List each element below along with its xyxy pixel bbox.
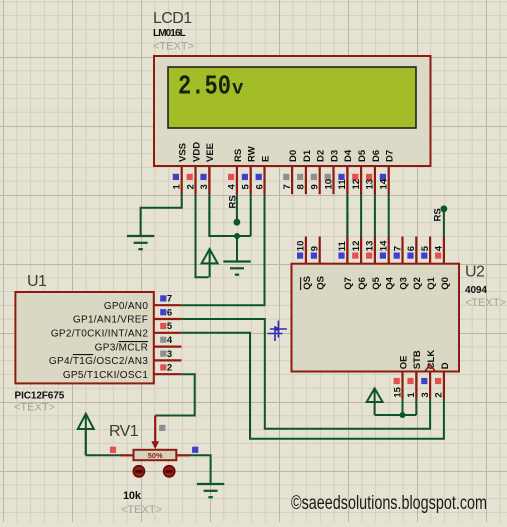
svg-text:RW: RW — [247, 146, 258, 162]
wire LCD RW (pin5) down — [250, 194, 252, 236]
svg-text:GP2/T0CKI/INT/AN2: GP2/T0CKI/INT/AN2 — [51, 329, 148, 340]
ground (VEE/RW) — [223, 262, 250, 275]
U2 pin 4 (Q0) — [434, 237, 451, 290]
junction VEE/RW/ground — [234, 233, 240, 239]
svg-text:D3: D3 — [329, 150, 340, 162]
wire U1 GP1 (pin6) to U2 CLK — [181, 319, 430, 429]
svg-text:<TEXT>: <TEXT> — [121, 504, 162, 516]
potentiometer RV1 body — [134, 450, 177, 460]
svg-text:D1: D1 — [302, 149, 313, 162]
LCD1 pin 6 (E) — [254, 156, 271, 195]
svg-text:8: 8 — [296, 184, 307, 189]
U2 pin 5 (Q1) — [420, 237, 437, 290]
svg-text:3: 3 — [199, 184, 210, 189]
svg-text:GP1/AN1/VREF: GP1/AN1/VREF — [73, 315, 148, 326]
svg-text:Q0: Q0 — [440, 277, 451, 290]
U2 pin 7 (Q3) — [392, 237, 409, 290]
RV1 pin 2 (right) — [176, 447, 198, 456]
svg-text:9: 9 — [310, 246, 321, 251]
wire LCD D5 (pin12) to U2 Q6 — [360, 194, 362, 237]
svg-text:RS: RS — [432, 208, 443, 221]
U2 pin 6 (Q2) — [406, 237, 423, 290]
wire LCD VSS (pin1) to ground — [141, 194, 182, 235]
svg-text:D2: D2 — [316, 150, 327, 162]
svg-text:GP3/MCLR: GP3/MCLR — [95, 342, 149, 353]
svg-text:9: 9 — [310, 184, 321, 189]
LCD1 pin 11 (D4) — [337, 149, 354, 194]
svg-text:<TEXT>: <TEXT> — [465, 297, 506, 309]
svg-text:U2: U2 — [465, 264, 485, 281]
svg-text:D4: D4 — [343, 149, 354, 162]
svg-text:6: 6 — [406, 246, 417, 251]
clock notch U2 CLK — [425, 365, 436, 372]
svg-text:10k: 10k — [123, 490, 142, 502]
wire junction to ground — [236, 236, 238, 261]
svg-text:D7: D7 — [385, 150, 396, 162]
svg-text:10: 10 — [323, 179, 334, 190]
svg-text:VEE: VEE — [205, 143, 216, 162]
svg-text:11: 11 — [337, 240, 348, 251]
U1 pin 3 (GP4/T1G/OSC2/AN3) — [49, 349, 181, 367]
LCD1 pin 9 (D2) — [310, 150, 327, 194]
LCD1 pin 3 (VEE) — [199, 143, 216, 194]
svg-text:D: D — [440, 362, 451, 369]
svg-text:RS: RS — [227, 195, 238, 208]
svg-text:5: 5 — [241, 184, 252, 190]
ground (RV1) — [197, 484, 224, 497]
svg-text:OE: OE — [398, 356, 409, 370]
wire LCD D7 (pin14) to U2 Q4 — [388, 194, 390, 237]
wire RV1 right to ground — [190, 455, 211, 483]
svg-text:2: 2 — [167, 363, 172, 374]
wire OE/STB to power — [375, 414, 417, 416]
LCD1 pin 7 (D0) — [282, 150, 299, 194]
svg-text:VSS: VSS — [178, 143, 189, 162]
U2 pin 3 (CLK) — [420, 350, 437, 399]
svg-text:U1: U1 — [27, 273, 47, 290]
U1 pin 5 (GP2/T0CKI/INT/AN2) — [51, 321, 182, 339]
LCD1 pin 10 (D3) — [323, 150, 340, 194]
U2 pin 1 (STB) — [406, 350, 423, 399]
svg-text:12: 12 — [351, 241, 362, 252]
svg-text:1: 1 — [406, 392, 417, 398]
marker origin crosshair — [268, 321, 287, 342]
svg-text:1: 1 — [172, 184, 183, 190]
svg-text:6: 6 — [254, 184, 265, 189]
svg-text:3: 3 — [420, 392, 431, 397]
LCD1 pin 2 (VDD) — [185, 142, 202, 194]
svg-text:Q2: Q2 — [412, 277, 423, 290]
LCD1 pin 13 (D6) — [365, 150, 382, 194]
svg-text:Q4: Q4 — [385, 276, 396, 289]
wire LCD VEE (pin3) to RW net — [209, 194, 250, 236]
power arrow VDD (LCD) — [202, 249, 218, 277]
LCD1 pin 14 (D7) — [379, 150, 396, 194]
U2 pin 10 (QS) — [296, 237, 313, 290]
svg-text:Q3: Q3 — [398, 277, 409, 290]
wire U1 GP2 (pin5) to U2 D — [181, 333, 444, 439]
svg-text:14: 14 — [379, 178, 390, 189]
svg-text:©saeedsolutions.blogspot.com: ©saeedsolutions.blogspot.com — [291, 493, 487, 514]
svg-text:50%: 50% — [148, 451, 163, 460]
LCD LCD1 body — [154, 56, 431, 166]
svg-text:GP5/T1CKI/OSC1: GP5/T1CKI/OSC1 — [63, 370, 148, 381]
svg-text:GP4/T1G/OSC2/AN3: GP4/T1G/OSC2/AN3 — [49, 356, 148, 367]
svg-text:D6: D6 — [371, 150, 382, 162]
U2 pin 2 (D) — [434, 362, 451, 399]
svg-text:<TEXT>: <TEXT> — [14, 402, 55, 414]
wire U2 STB (pin1) down — [415, 399, 417, 415]
node RS (U2 side) — [441, 205, 448, 212]
svg-text:3: 3 — [167, 349, 172, 360]
wire LCD VDD (pin2) to power — [196, 194, 209, 277]
svg-text:QS: QS — [316, 276, 327, 290]
svg-text:E: E — [260, 156, 271, 162]
svg-text:7: 7 — [282, 184, 293, 189]
svg-text:v: v — [232, 78, 244, 100]
LCD1 pin 1 (VSS) — [172, 143, 189, 194]
svg-text:LM016L: LM016L — [153, 28, 186, 39]
wire RV1 left to power — [86, 454, 120, 456]
svg-text:4: 4 — [167, 335, 173, 346]
RV1 pad right — [164, 466, 175, 477]
svg-text:RV1: RV1 — [109, 423, 139, 440]
svg-text:D5: D5 — [357, 149, 368, 162]
U2 pin 13 (Q5) — [365, 237, 382, 290]
svg-text:2: 2 — [185, 184, 196, 189]
U2 pin 11 (Q7) — [337, 237, 354, 290]
svg-text:D0: D0 — [288, 150, 299, 162]
power arrow VDD (RV1) — [78, 414, 94, 456]
wire U2 Q0 (pin4) RS stub — [443, 211, 445, 237]
svg-text:11: 11 — [337, 179, 348, 190]
wire U1 GP5 (pin2) to RV1 wiper — [155, 374, 195, 415]
svg-text:4: 4 — [434, 245, 445, 251]
LCD1 pin 12 (D5) — [351, 149, 368, 194]
overline T1G (U1 pin 3) — [73, 354, 93, 356]
svg-text:15: 15 — [392, 386, 403, 397]
IC U2 body — [292, 264, 460, 372]
overline MCLR (U1 pin 4) — [119, 341, 149, 343]
LCD LCD1 screen — [168, 67, 416, 128]
svg-text:PIC12F675: PIC12F675 — [15, 390, 65, 401]
svg-text:2: 2 — [434, 392, 445, 397]
svg-text:14: 14 — [379, 240, 390, 251]
RV1 wiper pin with arrow — [151, 416, 165, 450]
svg-text:4: 4 — [227, 184, 238, 190]
svg-text:LCD1: LCD1 — [153, 10, 192, 27]
U2 pin 12 (Q6) — [351, 237, 368, 290]
svg-text:Q5: Q5 — [371, 276, 382, 289]
node RS (LCD side) — [234, 219, 241, 226]
U2 pin 9 (QS) — [310, 237, 327, 290]
wire LCD D6 (pin13) to U2 Q5 — [374, 194, 376, 237]
svg-text:2.50: 2.50 — [178, 73, 231, 103]
svg-text:VDD: VDD — [191, 142, 202, 162]
wire LCD RS (pin4) stub — [236, 194, 238, 220]
svg-text:6: 6 — [167, 307, 172, 318]
power arrow VDD (U2) — [367, 388, 383, 415]
U2 pin 14 (Q4) — [379, 237, 396, 290]
junction OE — [400, 412, 406, 418]
wire LCD D4 (pin11) to U2 Q7 — [346, 194, 348, 237]
overline QS-bar (U2 pin 10) — [300, 277, 302, 290]
svg-text:<TEXT>: <TEXT> — [153, 40, 194, 52]
ground (LCD VSS) — [127, 236, 154, 249]
U1 pin 4 (GP3/MCLR) — [95, 335, 182, 353]
svg-text:5: 5 — [420, 245, 431, 251]
svg-text:7: 7 — [167, 294, 172, 305]
LCD1 pin 5 (RW) — [241, 146, 258, 194]
svg-text:12: 12 — [351, 179, 362, 190]
RV1 pin 1 (left) — [110, 447, 134, 456]
LCD1 pin 8 (D1) — [296, 149, 313, 194]
U1 pin 2 (GP5/T1CKI/OSC1) — [63, 363, 182, 381]
IC U1 body — [15, 292, 153, 383]
svg-text:Q6: Q6 — [357, 277, 368, 290]
svg-text:QS: QS — [302, 276, 313, 290]
svg-text:5: 5 — [167, 321, 173, 332]
svg-text:13: 13 — [365, 179, 376, 190]
LCD1 pin 4 (RS) — [227, 149, 244, 194]
U2 pin 15 (OE) — [392, 356, 409, 399]
wire U2 OE (pin15) down — [402, 399, 404, 415]
svg-text:GP0/AN0: GP0/AN0 — [104, 301, 148, 312]
RV1 pad left — [133, 466, 144, 477]
svg-text:4094: 4094 — [465, 285, 487, 296]
U1 pin 7 (GP0/AN0) — [104, 294, 182, 312]
U1 pin 6 (GP1/AN1/VREF) — [73, 307, 181, 325]
svg-text:10: 10 — [296, 241, 307, 252]
svg-text:Q1: Q1 — [426, 276, 437, 289]
wire LCD E (pin6) to U1 GP0 — [181, 194, 264, 305]
svg-text:Q7: Q7 — [343, 277, 354, 290]
svg-text:STB: STB — [412, 350, 423, 369]
svg-text:7: 7 — [392, 246, 403, 251]
svg-text:13: 13 — [365, 241, 376, 252]
svg-text:RS: RS — [233, 149, 244, 162]
